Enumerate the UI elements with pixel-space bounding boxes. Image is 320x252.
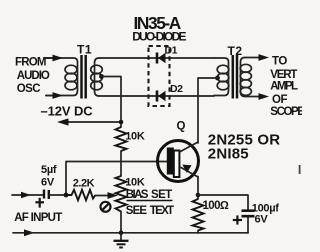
wire bias rail mid <box>120 151 122 176</box>
node emitter / bypass junction <box>196 193 201 198</box>
screwdriver adjust symbol <box>101 202 111 212</box>
wire ground bus with arrow <box>13 229 248 236</box>
label 100uf 6V <box>252 202 279 225</box>
svg-text:10K: 10K <box>125 177 145 189</box>
wire bottom secondary (T1 secondary bottom to T2 primary bottom through D2) <box>99 95 214 97</box>
transformer T1 secondary coil <box>91 58 103 96</box>
wire junction to capacitor C2 <box>198 195 248 210</box>
svg-text:FROM: FROM <box>15 57 46 69</box>
node pot ground junction <box>119 231 124 236</box>
label + (C2 polarity) <box>233 215 242 224</box>
svg-text:T1: T1 <box>77 43 92 57</box>
wire input top arrow <box>45 55 63 62</box>
wire input bottom arrow <box>46 92 63 99</box>
svg-text:10K: 10K <box>125 130 145 142</box>
diode D1 <box>157 53 166 64</box>
potentiometer wiper arrow <box>95 192 118 199</box>
svg-text:Q: Q <box>177 121 186 133</box>
resistor R3 2.2K <box>66 190 95 200</box>
svg-text:BIAS: BIAS <box>126 189 149 201</box>
transistor Q emitter stroke with arrow <box>181 165 198 177</box>
label FROM AUDIO OSC <box>15 57 50 96</box>
node base junction <box>64 193 69 198</box>
svg-text:6V: 6V <box>255 214 269 226</box>
wire emitter rail down <box>197 177 199 200</box>
svg-text:6V: 6V <box>41 177 55 189</box>
svg-text:TO: TO <box>272 55 287 67</box>
svg-text:TEXT: TEXT <box>150 205 174 217</box>
svg-text:T2: T2 <box>228 44 243 58</box>
wire output top arrow <box>245 54 269 61</box>
dashed enclosure 1N35 duo-diode <box>149 46 170 106</box>
potentiometer R2 10K bias set <box>116 176 127 212</box>
wire pot bottom to ground bus <box>120 212 122 234</box>
svg-text:DUO-DIODE: DUO-DIODE <box>132 29 186 43</box>
label 2N255 OR 2N185 <box>208 131 280 162</box>
svg-text:SCOPE: SCOPE <box>270 106 302 118</box>
svg-text:SEE: SEE <box>126 205 148 217</box>
svg-text:SET: SET <box>151 189 172 201</box>
transistor Q base bar <box>167 148 180 178</box>
wire base network (cap junction up and right to base) <box>66 162 168 196</box>
svg-text:–12V DC: –12V DC <box>41 104 94 119</box>
node T2 primary center tap <box>215 76 220 81</box>
label BIAS SET <box>126 189 173 201</box>
svg-text:D1: D1 <box>165 45 178 57</box>
wire T2 center tap to collector rail <box>198 78 218 143</box>
ground <box>114 233 129 248</box>
label + (C1 polarity) <box>35 198 44 208</box>
capacitor C2 100uf <box>242 211 255 233</box>
svg-text:2.2K: 2.2K <box>73 177 95 189</box>
transformer T2 secondary coil <box>240 58 251 97</box>
node T1 secondary center tap <box>99 74 104 79</box>
transformer T2 primary coil <box>214 58 229 96</box>
wire -12V DC feed with arrow <box>57 118 121 125</box>
wire center tap to bias rail <box>102 77 122 128</box>
diode D2 <box>157 91 166 102</box>
wire R4 bottom to ground bus <box>197 231 199 234</box>
svg-text:5µf: 5µf <box>41 164 57 176</box>
svg-text:VERT: VERT <box>270 69 297 81</box>
transformer T1 core <box>82 55 86 99</box>
resistor R1 10K <box>116 127 127 151</box>
resistor R4 100 ohm <box>193 199 204 231</box>
svg-text:OSC: OSC <box>17 83 40 95</box>
label 5uf 6V <box>41 164 57 189</box>
node -12V junction <box>119 120 124 125</box>
capacitor C1 5uf <box>44 190 66 200</box>
wire output bottom arrow <box>245 93 269 100</box>
svg-text:D2: D2 <box>170 83 183 95</box>
wire AF input top with arrow <box>12 192 43 199</box>
svg-text:OF: OF <box>272 94 287 106</box>
transistor Q collector stroke <box>180 142 199 152</box>
svg-text:AUDIO: AUDIO <box>17 70 50 82</box>
transformer T2 core <box>233 55 237 99</box>
label TO VERT AMPL OF SCOPE <box>270 55 305 118</box>
svg-text:100Ω: 100Ω <box>203 200 229 212</box>
svg-text:AMPL: AMPL <box>270 81 298 93</box>
transistor Q body circle <box>158 141 199 182</box>
transformer T1 primary coil <box>44 58 78 96</box>
svg-text:100µf: 100µf <box>252 202 279 214</box>
edge artifact right <box>299 165 301 174</box>
svg-text:2NI85: 2NI85 <box>208 145 249 162</box>
wire top (T1 secondary top to T2 primary top through D1) <box>99 57 214 59</box>
svg-text:AF INPUT: AF INPUT <box>14 212 62 224</box>
